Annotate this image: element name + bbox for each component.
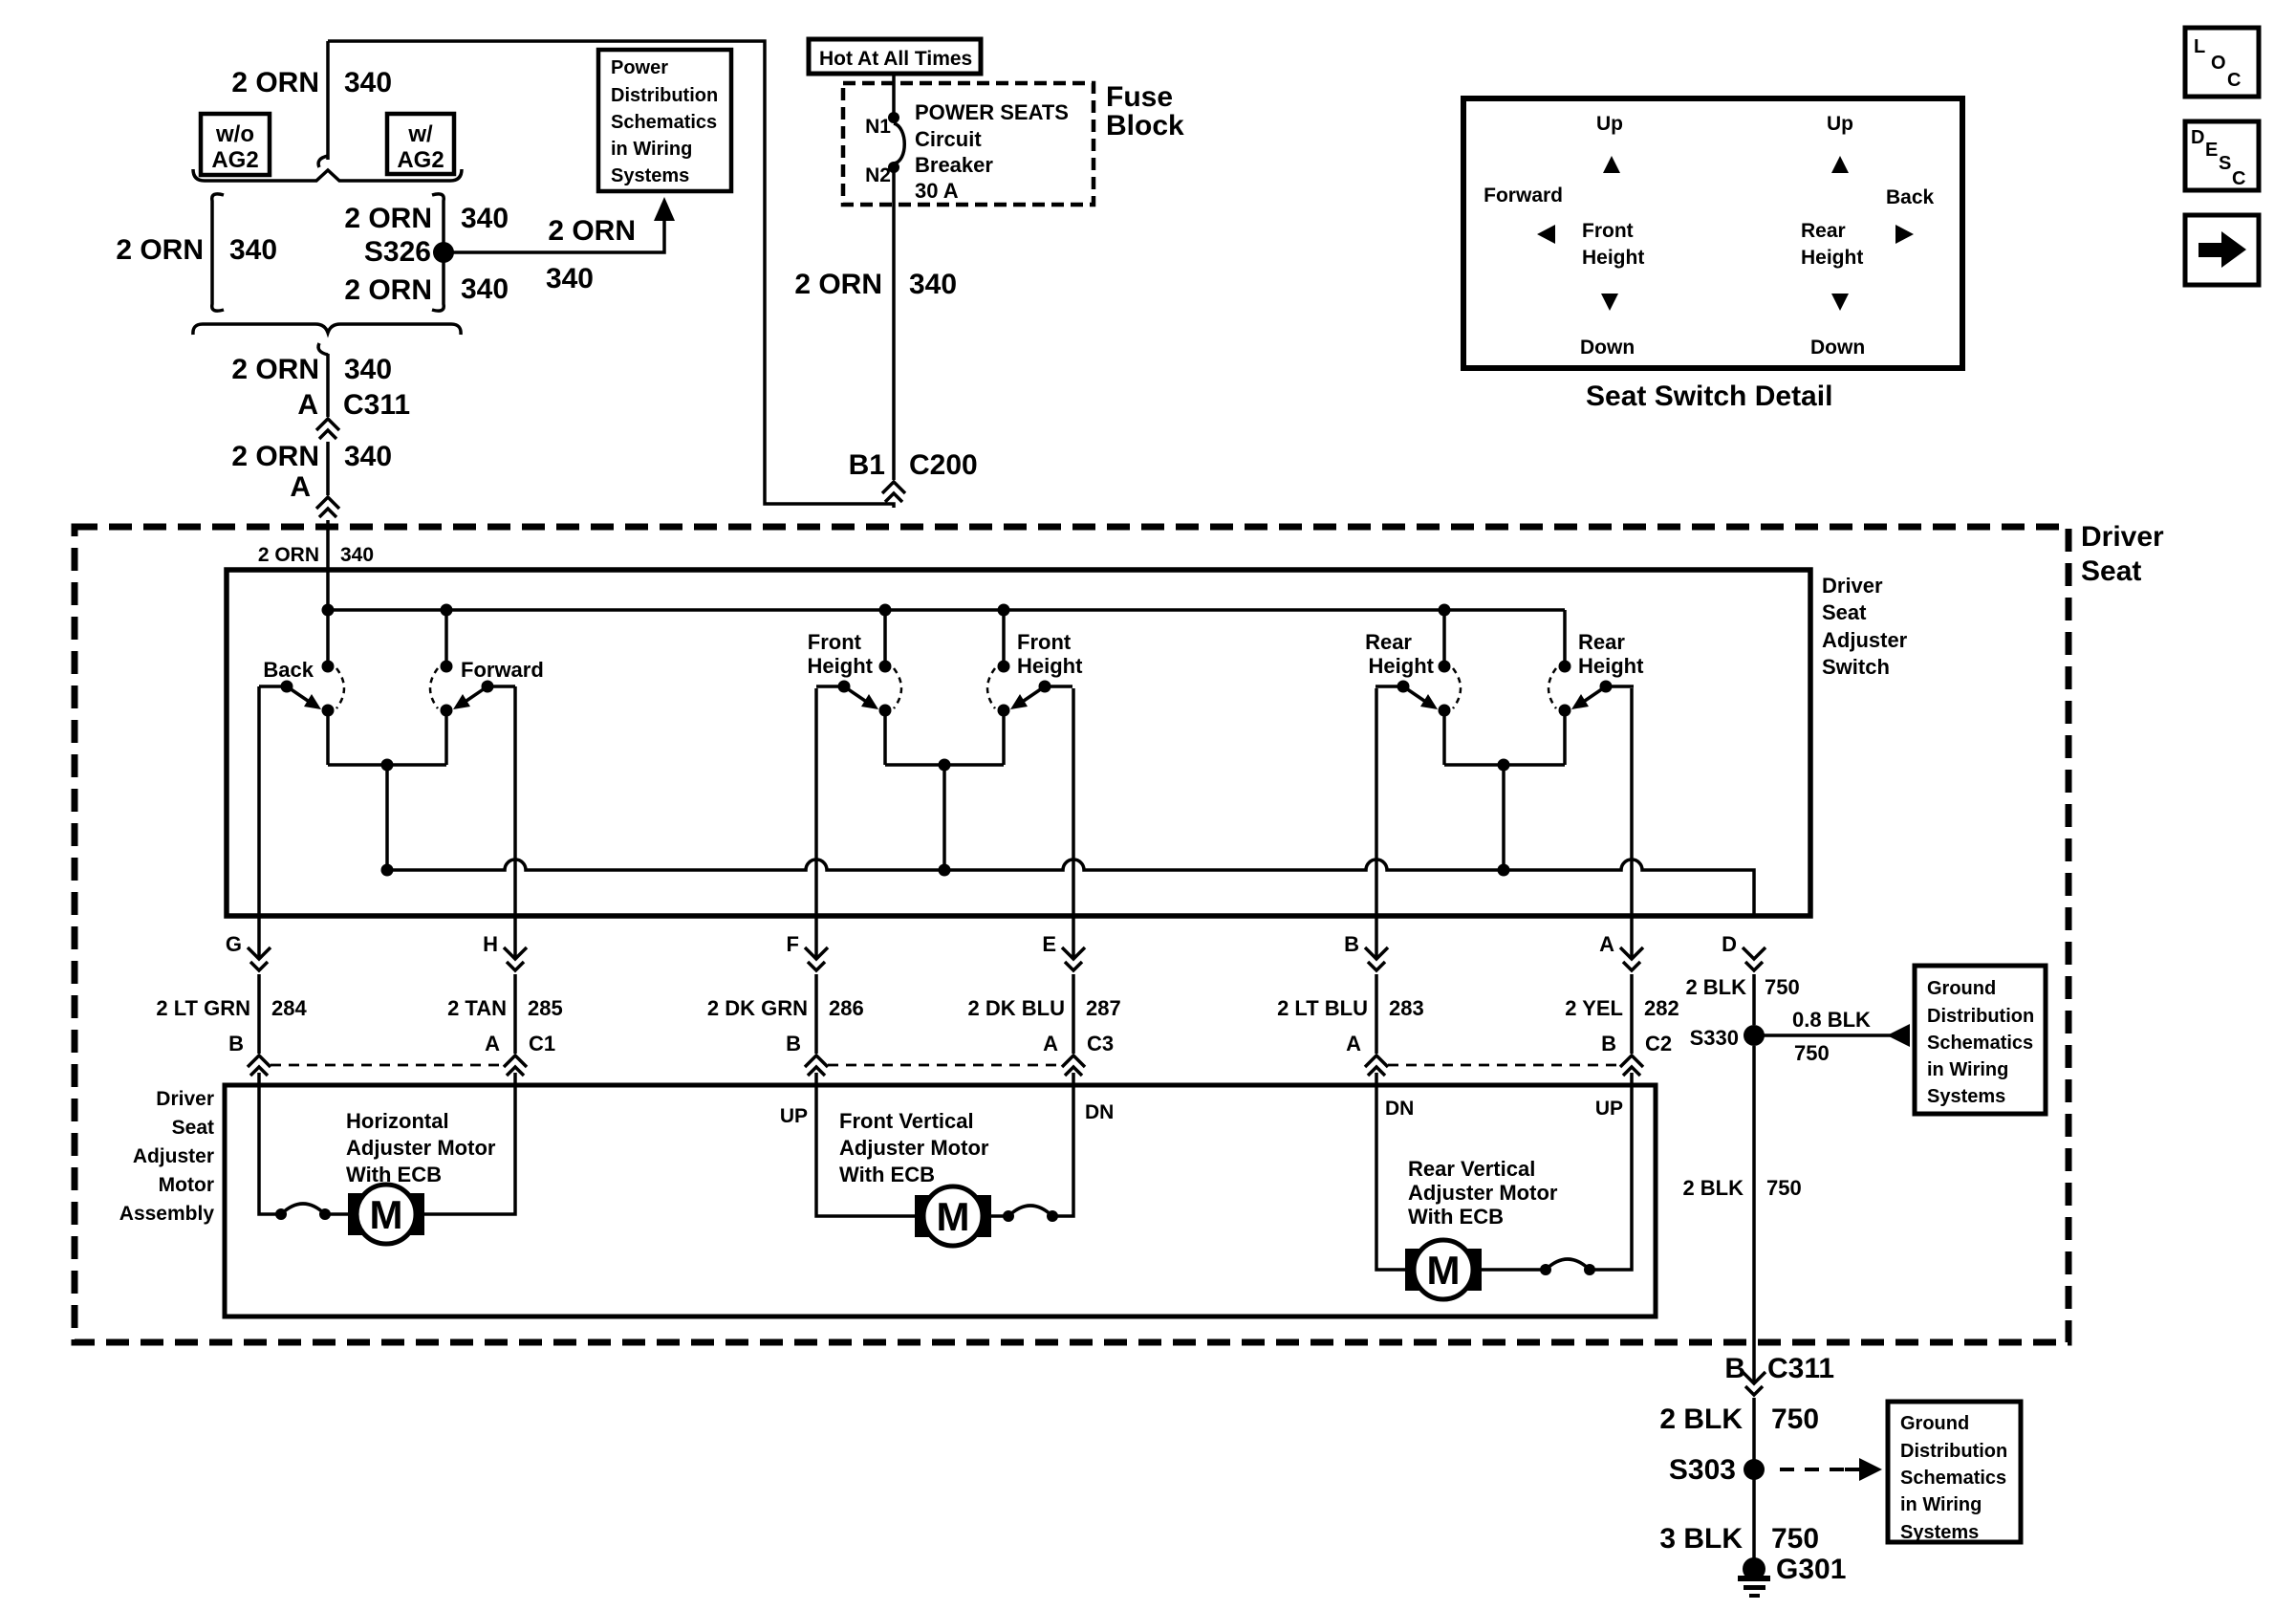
svg-text:in Wiring: in Wiring [611, 139, 692, 160]
svg-text:S303: S303 [1669, 1454, 1736, 1486]
svg-text:Seat: Seat [1822, 600, 1867, 624]
svg-text:C3: C3 [1087, 1032, 1114, 1055]
wire: Front Height common to lower bus [885, 763, 1004, 767]
svg-text:UP: UP [780, 1105, 808, 1127]
svg-text:Forward: Forward [461, 658, 544, 682]
svg-text:2 BLK: 2 BLK [1685, 975, 1746, 999]
svg-text:B: B [786, 1032, 801, 1055]
svg-text:Height: Height [808, 654, 874, 678]
svg-text:Distribution: Distribution [1927, 1006, 2034, 1027]
svg-text:340: 340 [461, 273, 509, 305]
svg-text:C311: C311 [343, 389, 410, 421]
svg-text:Schematics: Schematics [611, 112, 717, 133]
svg-text:C1: C1 [529, 1032, 555, 1055]
svg-text:in Wiring: in Wiring [1900, 1494, 1982, 1515]
svg-text:287: 287 [1086, 996, 1121, 1020]
wire: motor to ECB (rear) [1482, 1268, 1546, 1272]
wire: G into horizontal motor [259, 1073, 281, 1214]
svg-text:D: D [2191, 127, 2204, 148]
svg-text:N2: N2 [865, 164, 891, 186]
svg-text:AG2: AG2 [397, 147, 444, 173]
svg-text:3 BLK: 3 BLK [1659, 1523, 1743, 1555]
svg-text:Back: Back [263, 658, 314, 682]
svg-text:2 BLK: 2 BLK [1682, 1176, 1744, 1200]
svg-text:Seat Switch Detail: Seat Switch Detail [1586, 381, 1832, 412]
wire: B into rear vertical motor [1376, 1073, 1405, 1270]
wire: F into front vertical motor [816, 1073, 915, 1216]
wire label: 2 YEL 282 [1630, 974, 1634, 1054]
svg-text:750: 750 [1766, 1176, 1802, 1200]
svg-text:Front: Front [1017, 630, 1072, 654]
svg-text:w/: w/ [407, 121, 433, 147]
svg-text:Breaker: Breaker [915, 153, 993, 177]
wire: 2 BLK 750 to S303 [1752, 1398, 1756, 1569]
svg-text:H: H [483, 932, 498, 956]
svg-text:Forward: Forward [1484, 185, 1563, 207]
box: Fuse Block (dashed) [843, 83, 1094, 205]
svg-text:2 LT GRN: 2 LT GRN [156, 996, 250, 1020]
svg-text:Back: Back [1886, 186, 1935, 208]
wire label: 2 BLK 750 (D) [1752, 974, 1756, 1025]
svg-text:C200: C200 [909, 449, 978, 481]
svg-text:283: 283 [1389, 996, 1424, 1020]
box: Driver Seat Adjuster Motor Assembly [225, 1085, 1656, 1316]
svg-text:UP: UP [1595, 1098, 1623, 1120]
option split tilde bottom [318, 343, 328, 355]
svg-text:750: 750 [1794, 1041, 1830, 1065]
box: arrow legend [2185, 215, 2259, 285]
wire: lower bus to D output with hops [387, 859, 1754, 916]
svg-text:N1: N1 [865, 116, 891, 138]
brace: option split lower [193, 324, 461, 335]
box: Seat Switch Detail [1463, 98, 1962, 368]
svg-text:Distribution: Distribution [1900, 1441, 2007, 1462]
box: w/ AG2 [387, 114, 454, 174]
svg-text:Seat: Seat [172, 1117, 214, 1139]
svg-text:S330: S330 [1690, 1026, 1739, 1050]
svg-text:Rear: Rear [1801, 220, 1846, 242]
svg-text:Seat: Seat [2081, 555, 2141, 587]
switch: Rear Height (up) [1549, 610, 1634, 765]
svg-text:2 BLK: 2 BLK [1659, 1403, 1743, 1435]
box: LOC legend [2185, 28, 2259, 97]
svg-text:Height: Height [1582, 247, 1644, 269]
svg-text:Ground: Ground [1900, 1413, 1969, 1434]
wire: 0.8 BLK 750 to ground distribution [1754, 1033, 1906, 1037]
wire: Rear Height common to lower bus [1444, 763, 1565, 767]
wire label: 2 LT BLU 283 [1375, 974, 1378, 1054]
svg-text:340: 340 [461, 203, 509, 234]
svg-text:2 DK GRN: 2 DK GRN [707, 996, 808, 1020]
wire: D ground lead down [1752, 1046, 1756, 1383]
wire: B output [1375, 688, 1378, 957]
svg-text:Systems: Systems [1900, 1522, 1979, 1543]
connector: seat harness pin A [316, 497, 339, 517]
motor: Front Vertical Adjuster Motor [915, 1186, 991, 1246]
svg-text:Systems: Systems [1927, 1086, 2005, 1107]
wire: left option branch 2 ORN 340 [212, 194, 224, 311]
box: Ground Distribution Schematics in Wiring Systems (lower) [1888, 1402, 2021, 1542]
svg-text:Block: Block [1106, 110, 1184, 141]
ground G301 [1743, 1557, 1765, 1580]
svg-text:340: 340 [340, 544, 374, 566]
svg-text:With ECB: With ECB [839, 1163, 935, 1186]
svg-text:C311: C311 [1767, 1353, 1834, 1384]
box: Power Distribution Schematics in Wiring Systems [598, 50, 731, 191]
svg-text:B: B [1344, 932, 1359, 956]
svg-text:340: 340 [344, 354, 392, 385]
svg-text:340: 340 [546, 263, 594, 294]
svg-text:G: G [226, 932, 242, 956]
wire: 2 ORN 340 below C311 [326, 442, 330, 495]
svg-text:C: C [2227, 70, 2241, 91]
motor: Rear Vertical Adjuster Motor [1405, 1240, 1482, 1299]
wire: right option branch with splice S326 [432, 194, 444, 311]
svg-text:2 ORN: 2 ORN [794, 269, 882, 300]
svg-text:Down: Down [1580, 337, 1635, 359]
svg-text:A: A [297, 389, 318, 421]
svg-text:Assembly: Assembly [119, 1203, 215, 1225]
brace: option split upper [193, 169, 462, 181]
svg-text:With ECB: With ECB [346, 1163, 442, 1186]
svg-text:A: A [290, 471, 311, 503]
svg-text:Hot At All Times: Hot At All Times [819, 48, 972, 70]
svg-text:DN: DN [1385, 1098, 1414, 1120]
svg-text:in Wiring: in Wiring [1927, 1059, 2008, 1080]
connector C3 dashed link [828, 1064, 1062, 1067]
circuit breaker POWER SEATS 30 A [888, 112, 899, 123]
svg-text:E: E [2205, 140, 2218, 161]
wire: ECB to motor [325, 1212, 348, 1216]
wire: Back/Forward common to lower bus [328, 763, 446, 767]
svg-text:Systems: Systems [611, 165, 689, 186]
svg-text:Front Vertical: Front Vertical [839, 1109, 974, 1133]
svg-text:750: 750 [1765, 975, 1800, 999]
splice S326 [433, 242, 454, 263]
svg-text:AG2: AG2 [211, 147, 258, 173]
wire: 2 ORN 340 feed loop from fuse block [328, 41, 894, 508]
wire: ECB to E [1052, 1073, 1073, 1216]
wire: battery feed into breaker [892, 74, 896, 118]
box: Driver Seat Adjuster Switch [227, 570, 1810, 916]
wire: F output [814, 688, 818, 957]
svg-text:C: C [2232, 168, 2245, 189]
svg-text:Power: Power [611, 57, 668, 78]
svg-text:2 ORN: 2 ORN [231, 441, 319, 472]
svg-text:750: 750 [1771, 1523, 1819, 1555]
svg-text:Height: Height [1369, 654, 1435, 678]
svg-text:F: F [787, 932, 799, 956]
svg-text:285: 285 [528, 996, 563, 1020]
svg-text:B: B [1601, 1032, 1616, 1055]
wire: H output [513, 686, 517, 957]
svg-text:Height: Height [1578, 654, 1644, 678]
arrowhead up into power distribution box [654, 197, 675, 221]
switch: Forward [430, 610, 515, 765]
svg-text:D: D [1722, 932, 1737, 956]
connector C311 pin A [316, 419, 339, 439]
switch: Front Height (down) [987, 610, 1072, 765]
svg-text:2 DK BLU: 2 DK BLU [968, 996, 1065, 1020]
svg-text:2 ORN: 2 ORN [258, 544, 319, 566]
wire: switch feed bus [328, 608, 1565, 612]
svg-text:Ground: Ground [1927, 978, 1996, 999]
connector C200 pin B1 [882, 482, 905, 502]
svg-text:Adjuster: Adjuster [1822, 628, 1908, 652]
svg-text:Driver: Driver [1822, 574, 1883, 598]
wire: 2 ORN 340 into driver seat [326, 520, 330, 610]
motor: Horizontal Adjuster Motor [348, 1185, 424, 1244]
svg-text:A: A [1346, 1032, 1361, 1055]
svg-text:Adjuster Motor: Adjuster Motor [346, 1136, 496, 1160]
svg-text:Circuit: Circuit [915, 127, 982, 151]
svg-text:0.8 BLK: 0.8 BLK [1792, 1008, 1871, 1032]
svg-text:O: O [2211, 53, 2226, 74]
svg-text:L: L [2194, 36, 2205, 57]
svg-text:C2: C2 [1645, 1032, 1672, 1055]
svg-text:Rear: Rear [1365, 630, 1412, 654]
wire: G output [257, 686, 261, 957]
svg-text:Driver: Driver [156, 1088, 214, 1110]
svg-text:Horizontal: Horizontal [346, 1109, 449, 1133]
svg-text:Height: Height [1017, 654, 1083, 678]
svg-text:DN: DN [1085, 1101, 1114, 1123]
svg-text:S326: S326 [364, 236, 431, 268]
svg-text:Rear Vertical: Rear Vertical [1408, 1157, 1535, 1181]
wire: ECB to A [1590, 1073, 1632, 1270]
box: Ground Distribution Schematics in Wiring Systems (upper) [1915, 966, 2046, 1114]
svg-text:Motor: Motor [159, 1174, 214, 1196]
svg-text:Adjuster: Adjuster [133, 1145, 214, 1167]
switch: Back [259, 610, 344, 765]
switch: Rear Height (down) [1375, 610, 1461, 765]
wire label: 2 DK BLU 287 [1072, 974, 1075, 1054]
svg-text:340: 340 [229, 234, 277, 266]
box: w/o AG2 [201, 114, 270, 175]
svg-text:30 A: 30 A [915, 179, 959, 203]
svg-text:Schematics: Schematics [1927, 1033, 2033, 1054]
svg-text:2 LT BLU: 2 LT BLU [1277, 996, 1368, 1020]
svg-text:2 TAN: 2 TAN [447, 996, 507, 1020]
svg-text:E: E [1042, 932, 1056, 956]
svg-text:Height: Height [1801, 247, 1863, 269]
svg-text:Driver: Driver [2081, 521, 2164, 553]
svg-text:B1: B1 [849, 449, 885, 481]
svg-text:A: A [485, 1032, 500, 1055]
svg-text:A: A [1599, 932, 1614, 956]
svg-text:S: S [2219, 153, 2231, 174]
ECB contact (horizontal motor) [275, 1204, 331, 1220]
option split tilde top [318, 156, 328, 167]
svg-text:2 ORN: 2 ORN [231, 354, 319, 385]
svg-text:Up: Up [1596, 113, 1623, 135]
wire label: 2 DK GRN 286 [814, 974, 818, 1054]
svg-text:B: B [228, 1032, 244, 1055]
svg-text:Distribution: Distribution [611, 85, 718, 106]
wire label: 2 TAN 285 [513, 974, 517, 1054]
wire: E output [1072, 688, 1075, 957]
svg-text:750: 750 [1771, 1403, 1819, 1435]
svg-text:2 ORN: 2 ORN [344, 203, 432, 234]
svg-text:2 ORN: 2 ORN [116, 234, 204, 266]
svg-text:Rear: Rear [1578, 630, 1625, 654]
box: Hot At All Times [809, 39, 981, 74]
wire label: 2 LT GRN 284 [257, 974, 261, 1054]
wire: 2 ORN vertical into option split [326, 41, 330, 160]
svg-text:POWER SEATS: POWER SEATS [915, 100, 1069, 124]
dashed arrow: S303 to ground distribution [1780, 1468, 1845, 1471]
box: DESC legend [2185, 121, 2259, 190]
svg-text:2 ORN: 2 ORN [548, 215, 636, 247]
svg-text:2 ORN: 2 ORN [231, 67, 319, 98]
ECB contact (rear vertical motor) [1540, 1259, 1595, 1275]
svg-text:340: 340 [344, 67, 392, 98]
svg-text:340: 340 [909, 269, 957, 300]
svg-text:Adjuster Motor: Adjuster Motor [1408, 1181, 1558, 1205]
svg-text:w/o: w/o [215, 121, 254, 147]
wire: motor to ECB [991, 1214, 1008, 1218]
svg-text:282: 282 [1644, 996, 1679, 1020]
svg-text:2 ORN: 2 ORN [344, 274, 432, 306]
svg-text:A: A [1043, 1032, 1058, 1055]
svg-text:G301: G301 [1776, 1554, 1846, 1585]
switch: Front Height (up) [816, 610, 901, 765]
svg-text:Front: Front [808, 630, 862, 654]
box: Driver Seat (dashed) [75, 527, 2069, 1342]
wire: motor to H [424, 1073, 515, 1214]
svg-text:Adjuster Motor: Adjuster Motor [839, 1136, 989, 1160]
svg-text:Front: Front [1582, 220, 1634, 242]
wire: S326 to power distribution arrow [444, 219, 664, 252]
svg-text:Up: Up [1827, 113, 1853, 135]
svg-text:284: 284 [271, 996, 307, 1020]
svg-text:B: B [1724, 1353, 1745, 1384]
svg-text:Fuse: Fuse [1106, 81, 1173, 113]
svg-text:Schematics: Schematics [1900, 1468, 2006, 1489]
svg-text:286: 286 [829, 996, 864, 1020]
svg-text:2 YEL: 2 YEL [1565, 996, 1623, 1020]
svg-text:Down: Down [1810, 337, 1865, 359]
connector C1 dashed link [271, 1064, 504, 1067]
svg-text:340: 340 [344, 441, 392, 472]
wire: A output [1630, 688, 1634, 957]
svg-text:Switch: Switch [1822, 655, 1890, 679]
wire: breaker to C200 [892, 167, 896, 480]
ECB contact (front vertical motor) [1003, 1206, 1058, 1222]
svg-text:With ECB: With ECB [1408, 1205, 1504, 1229]
wire: 2 ORN 340 down to C311 [326, 354, 330, 417]
connector C2 dashed link [1388, 1064, 1620, 1067]
